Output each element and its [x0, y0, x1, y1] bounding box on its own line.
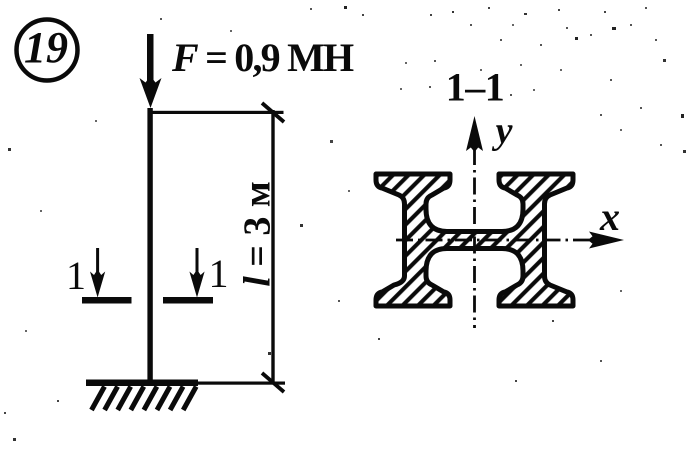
ground extension line thin [198, 382, 285, 385]
svg-text:1–1: 1–1 [446, 65, 505, 110]
svg-text:1: 1 [66, 253, 86, 298]
cross-section: two I-profiles joined by middle web, hatched [376, 174, 573, 306]
section mark right: bar [163, 297, 213, 304]
section mark left: bar [82, 297, 132, 304]
svg-text:1: 1 [209, 251, 229, 296]
section mark left: arrow [90, 248, 105, 298]
svg-text:F = 0,9 МН: F = 0,9 МН [171, 35, 354, 80]
dimension tick bottom [262, 373, 284, 392]
top extension line [149, 111, 284, 114]
force arrow F [140, 34, 162, 108]
svg-text:19: 19 [24, 23, 68, 72]
column (vertical bar) [147, 108, 152, 383]
ground line thick [86, 380, 198, 387]
svg-text:l = 3 м: l = 3 м [237, 181, 279, 287]
section mark right: arrow [189, 248, 204, 298]
dimension tick top [262, 103, 284, 122]
dimension line l [271, 110, 274, 384]
x axis (dash-dot) [396, 232, 624, 249]
y axis (dash-dot) [466, 116, 483, 328]
svg-text:x: x [599, 194, 620, 239]
problem number badge 19 [17, 20, 78, 81]
svg-text:y: y [492, 110, 513, 152]
ground hatching [92, 387, 197, 411]
